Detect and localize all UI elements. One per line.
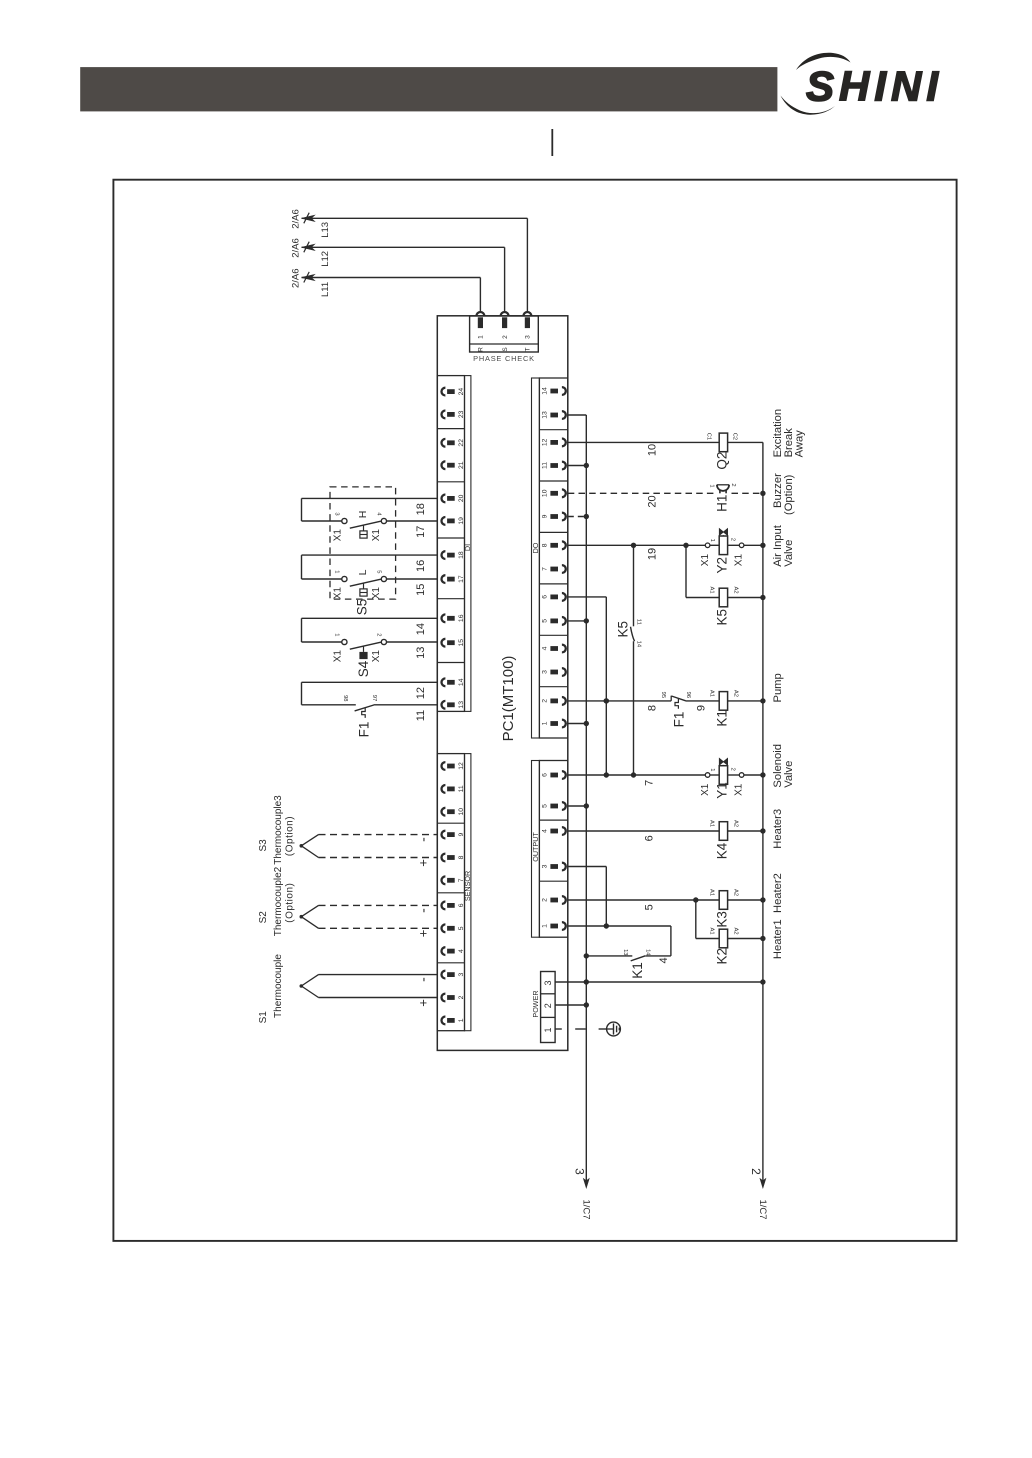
svg-text:10: 10 [458, 808, 465, 816]
svg-text:S5: S5 [355, 599, 370, 616]
svg-text:12: 12 [458, 762, 465, 770]
svg-text:14: 14 [458, 678, 465, 686]
svg-text:2: 2 [541, 898, 548, 902]
svg-text:9: 9 [696, 705, 708, 711]
svg-text:14: 14 [541, 387, 548, 395]
svg-text:2: 2 [376, 633, 382, 636]
svg-text:17: 17 [458, 575, 465, 583]
svg-text:2: 2 [730, 483, 736, 486]
svg-text:8: 8 [647, 705, 659, 711]
svg-text:OUTPUT: OUTPUT [531, 832, 540, 862]
svg-text:C2: C2 [731, 433, 737, 440]
svg-text:11: 11 [458, 785, 465, 792]
svg-text:S2: S2 [258, 911, 269, 924]
svg-text:1: 1 [334, 570, 340, 573]
svg-text:Pump: Pump [772, 673, 784, 702]
svg-text:14: 14 [645, 949, 651, 956]
svg-text:13: 13 [415, 647, 427, 659]
svg-text:DI: DI [463, 544, 472, 551]
svg-text:A1: A1 [709, 586, 715, 593]
svg-text:8: 8 [541, 543, 548, 547]
svg-text:X1: X1 [371, 529, 382, 542]
svg-text:6: 6 [541, 595, 548, 599]
svg-text:X1: X1 [733, 554, 744, 567]
svg-text:97: 97 [371, 695, 377, 701]
svg-text:X1: X1 [371, 587, 382, 600]
svg-text:3: 3 [541, 670, 548, 674]
svg-text:-: - [415, 837, 431, 842]
svg-text:SENSOR: SENSOR [463, 871, 472, 901]
svg-text:-: - [415, 908, 431, 913]
svg-text:12: 12 [541, 438, 548, 446]
svg-text:13: 13 [622, 949, 628, 955]
svg-text:Valve: Valve [783, 761, 795, 788]
svg-text:L11: L11 [320, 282, 331, 297]
svg-text:14: 14 [415, 623, 427, 635]
svg-text:14: 14 [635, 641, 641, 648]
svg-text:Heater2: Heater2 [772, 873, 784, 913]
svg-text:(Option): (Option) [285, 883, 296, 923]
svg-text:10: 10 [647, 444, 659, 456]
svg-text:2: 2 [749, 1168, 763, 1175]
svg-text:11: 11 [541, 462, 548, 469]
svg-text:19: 19 [647, 548, 659, 560]
svg-text:3: 3 [543, 980, 553, 985]
svg-text:Y1: Y1 [715, 782, 730, 799]
svg-text:H: H [357, 511, 369, 519]
svg-text:2/A6: 2/A6 [290, 209, 301, 229]
svg-text:2/A6: 2/A6 [290, 268, 301, 288]
svg-text:1: 1 [478, 335, 485, 339]
svg-text:X1: X1 [371, 650, 382, 663]
svg-text:Away: Away [794, 430, 806, 458]
svg-text:5: 5 [541, 804, 548, 808]
svg-text:1: 1 [541, 721, 548, 725]
svg-text:96: 96 [685, 692, 691, 698]
svg-text:24: 24 [458, 388, 465, 396]
svg-text:+: + [416, 999, 431, 1007]
svg-text:Thermocouple3: Thermocouple3 [273, 795, 284, 865]
svg-text:F1: F1 [357, 722, 372, 738]
svg-text:4: 4 [541, 829, 548, 833]
svg-text:3: 3 [572, 1168, 586, 1175]
svg-text:Air Input: Air Input [772, 524, 784, 567]
svg-text:9: 9 [458, 832, 465, 836]
svg-text:1/C7: 1/C7 [757, 1200, 768, 1220]
svg-text:K5: K5 [715, 609, 730, 626]
svg-text:15: 15 [415, 584, 427, 596]
svg-text:12: 12 [415, 687, 427, 699]
svg-text:Y2: Y2 [715, 557, 730, 574]
svg-text:1: 1 [709, 768, 715, 771]
svg-text:6: 6 [541, 773, 548, 777]
svg-text:95: 95 [660, 692, 666, 698]
svg-text:18: 18 [415, 503, 427, 515]
svg-text:L: L [357, 569, 369, 575]
svg-text:A2: A2 [732, 690, 738, 697]
svg-text:5: 5 [458, 926, 465, 930]
svg-text:X1: X1 [700, 554, 711, 567]
svg-text:11: 11 [635, 619, 641, 625]
svg-text:K3: K3 [715, 911, 730, 928]
svg-text:A2: A2 [732, 820, 738, 827]
svg-text:19: 19 [458, 517, 465, 525]
svg-text:SHINI: SHINI [806, 63, 943, 110]
svg-text:A2: A2 [732, 889, 738, 896]
svg-text:A1: A1 [709, 820, 715, 827]
svg-text:K1: K1 [630, 962, 645, 979]
svg-text:PC1(MT100): PC1(MT100) [500, 656, 517, 742]
svg-text:X1: X1 [333, 650, 344, 663]
svg-text:2: 2 [730, 538, 736, 541]
svg-text:Excitation: Excitation [772, 409, 784, 458]
svg-text:2: 2 [502, 335, 509, 339]
svg-text:Heater3: Heater3 [772, 809, 784, 849]
svg-text:A1: A1 [709, 889, 715, 896]
svg-text:X1: X1 [700, 783, 711, 796]
svg-text:R: R [478, 347, 485, 352]
svg-text:H1: H1 [715, 495, 730, 512]
svg-text:3: 3 [541, 864, 548, 868]
svg-text:Thermocouple: Thermocouple [273, 954, 284, 1018]
svg-text:X1: X1 [733, 783, 744, 796]
svg-text:K2: K2 [715, 948, 730, 965]
svg-text:1: 1 [334, 633, 340, 636]
svg-text:Q2: Q2 [715, 452, 730, 470]
svg-text:PHASE CHECK: PHASE CHECK [473, 354, 535, 363]
svg-text:2: 2 [541, 699, 548, 703]
svg-text:(Option): (Option) [285, 816, 296, 856]
svg-text:13: 13 [541, 411, 548, 419]
svg-text:S3: S3 [258, 839, 269, 852]
svg-text:7: 7 [541, 567, 548, 571]
svg-text:A1: A1 [709, 927, 715, 934]
svg-text:Buzzer: Buzzer [772, 473, 784, 508]
svg-text:S1: S1 [258, 1011, 269, 1024]
svg-text:POWER: POWER [531, 990, 540, 1017]
svg-text:+: + [416, 930, 431, 938]
svg-text:4: 4 [458, 949, 465, 953]
svg-text:16: 16 [458, 614, 465, 622]
svg-text:+: + [416, 859, 431, 867]
svg-text:11: 11 [415, 710, 427, 721]
svg-text:1: 1 [709, 539, 715, 542]
svg-text:18: 18 [458, 551, 465, 559]
svg-text:7: 7 [644, 780, 656, 786]
svg-text:S4: S4 [356, 660, 371, 677]
svg-text:X1: X1 [333, 587, 344, 600]
svg-text:4: 4 [541, 646, 548, 650]
svg-text:T: T [525, 347, 532, 351]
svg-text:21: 21 [458, 461, 465, 469]
svg-text:2: 2 [543, 1003, 553, 1008]
svg-text:9: 9 [541, 514, 548, 518]
svg-text:17: 17 [415, 526, 427, 538]
svg-text:A1: A1 [709, 690, 715, 697]
svg-text:3: 3 [458, 972, 465, 976]
svg-text:1: 1 [543, 1027, 553, 1032]
svg-text:L12: L12 [320, 251, 331, 267]
svg-text:Thermocouple2: Thermocouple2 [273, 866, 284, 936]
svg-text:98: 98 [342, 695, 348, 701]
svg-text:6: 6 [644, 835, 656, 841]
svg-text:A2: A2 [732, 586, 738, 593]
svg-text:8: 8 [458, 855, 465, 859]
svg-text:3: 3 [334, 512, 340, 515]
svg-text:1/C7: 1/C7 [581, 1200, 592, 1220]
svg-text:Heater1: Heater1 [772, 919, 784, 959]
svg-text:13: 13 [458, 701, 465, 709]
svg-text:5: 5 [644, 904, 656, 910]
svg-text:10: 10 [541, 489, 548, 497]
svg-text:23: 23 [458, 410, 465, 418]
svg-text:F1: F1 [672, 712, 687, 728]
svg-text:Solenoid: Solenoid [772, 744, 784, 788]
svg-text:20: 20 [647, 495, 659, 507]
svg-text:C1: C1 [705, 433, 711, 440]
svg-text:X1: X1 [333, 529, 344, 542]
svg-text:Valve: Valve [783, 540, 795, 567]
svg-text:1: 1 [708, 484, 714, 487]
svg-text:6: 6 [458, 903, 465, 907]
svg-text:22: 22 [458, 439, 465, 447]
svg-text:20: 20 [458, 494, 465, 502]
svg-text:2: 2 [730, 768, 736, 771]
svg-text:5: 5 [376, 570, 382, 573]
svg-text:K1: K1 [715, 710, 730, 727]
svg-text:3: 3 [525, 335, 532, 339]
svg-text:5: 5 [541, 619, 548, 623]
svg-text:15: 15 [458, 639, 465, 647]
svg-text:K4: K4 [715, 842, 730, 859]
svg-text:1: 1 [541, 924, 548, 928]
svg-text:K5: K5 [616, 621, 631, 638]
svg-text:4: 4 [658, 957, 670, 963]
svg-text:S: S [502, 347, 509, 352]
svg-text:A2: A2 [732, 927, 738, 934]
svg-text:DO: DO [531, 542, 540, 553]
svg-text:1: 1 [458, 1018, 465, 1022]
svg-text:2/A6: 2/A6 [290, 238, 301, 258]
svg-text:L13: L13 [320, 222, 331, 238]
svg-text:16: 16 [415, 560, 427, 572]
svg-text:2: 2 [458, 995, 465, 999]
svg-text:-: - [415, 977, 431, 982]
svg-text:(Option): (Option) [783, 474, 795, 515]
